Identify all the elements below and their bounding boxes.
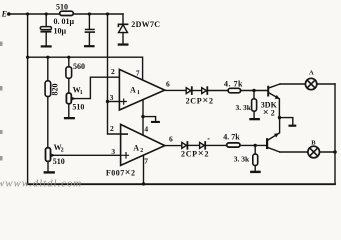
ground (under zener) — [118, 43, 129, 45]
svg-text:A: A — [133, 143, 139, 152]
svg-text:A: A — [309, 70, 314, 77]
wire lamp B to right vertical — [320, 151, 336, 153]
node base2 junction — [254, 144, 257, 147]
wire A2 pin7 to bottom bus — [143, 155, 145, 184]
zener diode 2DW7C — [118, 14, 160, 43]
node pin7-bus junction — [142, 182, 145, 185]
svg-text:2: 2 — [110, 124, 114, 133]
wire — [187, 144, 199, 146]
node rail-cap1 junction — [45, 12, 48, 15]
svg-text:4: 4 — [144, 124, 148, 133]
op-amp A1 — [119, 69, 164, 110]
node rail-left junction — [26, 12, 29, 15]
capacitor C2 0.01u — [85, 14, 95, 45]
resistor 3.3k (upper) — [236, 91, 257, 118]
diode D1 2CP — [186, 87, 192, 94]
svg-text:7: 7 — [136, 69, 140, 78]
resistor 4.7k (upper) — [224, 80, 243, 93]
node ref-pin3 junction — [106, 100, 109, 103]
svg-text:6: 6 — [166, 80, 170, 89]
svg-text:2CP×2: 2CP×2 — [181, 149, 209, 160]
svg-text:4. 7k: 4. 7k — [223, 133, 240, 142]
node bus-left junction — [26, 56, 29, 59]
wire A1 output — [165, 89, 187, 91]
diode D4 2CP — [200, 142, 206, 149]
svg-text:820: 820 — [51, 84, 60, 96]
wire A1 pin3 stub — [108, 101, 120, 103]
wire Q2 collector to lamp B — [280, 151, 308, 153]
svg-text:2: 2 — [61, 148, 64, 154]
op-amp A2 — [121, 124, 165, 165]
ground (emitters) — [289, 125, 297, 127]
ground (under 3.3k upper) — [249, 118, 260, 120]
transistor Q1 3DK — [261, 84, 280, 119]
node lampB junction — [333, 150, 337, 154]
transistor Q2 3DK (flipped) — [266, 119, 280, 152]
ground (under W1) — [64, 117, 75, 119]
svg-text:A: A — [130, 86, 136, 95]
svg-text:1: 1 — [137, 90, 140, 96]
node pin4 junction — [141, 115, 144, 118]
ground (pin4) — [151, 121, 160, 123]
node bus-560 junction — [67, 56, 70, 59]
svg-text:7: 7 — [144, 156, 148, 165]
wire — [192, 90, 202, 92]
svg-text:10μ: 10μ — [54, 27, 67, 36]
ground (under 3.3k lower) — [250, 171, 261, 173]
svg-text:B: B — [311, 139, 316, 146]
ground (under C2) — [84, 45, 95, 47]
svg-text:3: 3 — [111, 147, 115, 156]
svg-text:2CP×2: 2CP×2 — [186, 95, 214, 106]
terminal E — [1, 9, 11, 18]
lamp B — [308, 139, 320, 157]
svg-text:2DW7C: 2DW7C — [131, 20, 160, 29]
svg-text:E: E — [1, 9, 7, 18]
wire A2 output — [165, 145, 182, 147]
svg-text:0. 01μ: 0. 01μ — [54, 17, 75, 26]
resistor 3.3k (lower) — [234, 145, 258, 170]
left edge specks — [0, 42, 3, 161]
wire — [207, 90, 228, 92]
wire to Q1 base — [241, 90, 268, 92]
wire E vertical left — [27, 14, 29, 184]
node emitters junction — [278, 116, 281, 119]
node bus-820 junction — [46, 56, 49, 59]
potentiometer W1 510 — [66, 78, 84, 117]
wire pin4 vertical between A1/A2 — [142, 100, 144, 136]
ground (under C1) — [41, 45, 52, 47]
node base1 junction — [252, 89, 255, 92]
svg-text:3. 3k: 3. 3k — [236, 103, 252, 112]
wire W1 wiper to A1 pin2 — [74, 77, 120, 98]
artifact speck — [208, 138, 210, 140]
wire pin4 to ground — [143, 117, 156, 121]
wire — [205, 144, 227, 146]
resistor 820 — [45, 57, 60, 96]
svg-text:2: 2 — [111, 67, 115, 76]
diode D3 2CP — [182, 142, 188, 149]
svg-text:1: 1 — [80, 90, 83, 96]
lamp A — [305, 70, 316, 90]
resistor 560 — [66, 57, 85, 78]
wire right vertical — [334, 84, 336, 184]
capacitor C1 10u — [40, 14, 74, 45]
svg-text:wwww.dltdl.com: wwww.dltdl.com — [0, 178, 82, 190]
svg-text:× 2: × 2 — [263, 107, 275, 118]
wire emitters to ground — [280, 118, 293, 125]
resistor 4.7k (lower) — [223, 133, 240, 147]
wire to Q2 base — [240, 144, 266, 146]
wire W2 wiper to A2 pin3 — [53, 154, 121, 156]
svg-text:4. 7k: 4. 7k — [224, 80, 243, 89]
svg-text:510: 510 — [53, 157, 65, 166]
wire reference vertical (zener node to A2 pin2) — [108, 14, 121, 134]
svg-text:560: 560 — [73, 62, 85, 71]
wire top rail — [10, 13, 123, 15]
wire mid bus (E supply) with pin7 stub of A1 — [28, 57, 143, 80]
svg-text:510: 510 — [56, 2, 68, 11]
svg-text:3. 3k: 3. 3k — [234, 154, 250, 163]
svg-text:3: 3 — [110, 93, 114, 102]
node rail-cap2 junction — [88, 12, 91, 15]
node rail-ref junction — [106, 12, 109, 15]
svg-text:6: 6 — [169, 135, 173, 144]
svg-text:2: 2 — [140, 148, 143, 154]
ground (under W2) — [44, 171, 55, 173]
wire bottom bus — [28, 183, 335, 185]
svg-text:510: 510 — [72, 103, 84, 112]
wire lamp A to right vertical — [317, 83, 335, 85]
svg-text:F007×2: F007×2 — [106, 168, 136, 179]
diode D2 2CP — [202, 87, 208, 94]
potentiometer W2 510 — [46, 97, 65, 171]
wire Q1 collector to lamp A — [280, 83, 305, 85]
resistor 510 (top) — [56, 2, 73, 15]
